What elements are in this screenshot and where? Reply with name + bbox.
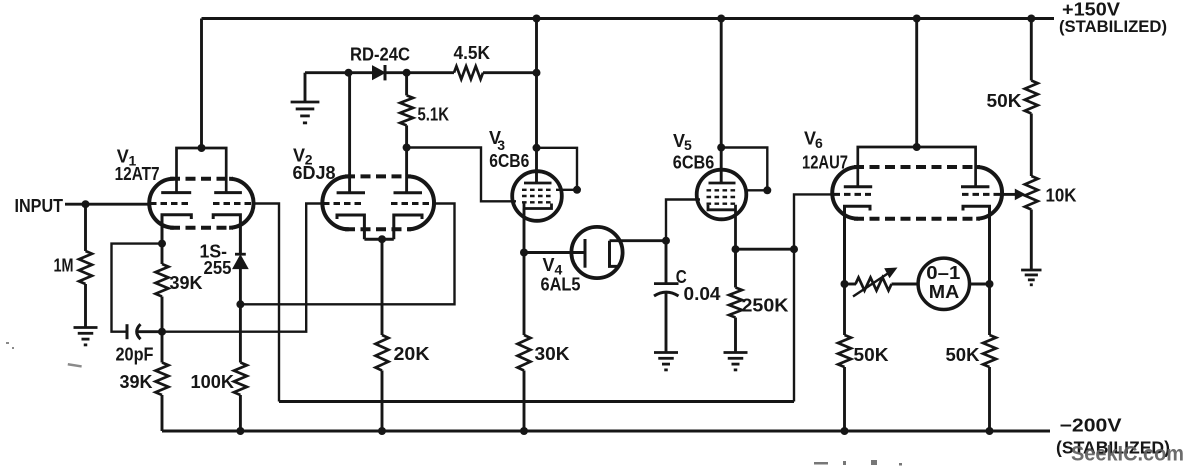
resistor R 250K (729, 288, 742, 318)
diode D 1S-255 (235, 253, 246, 256)
tube V2 left cathode (337, 215, 364, 239)
tube V5 grid rows (dashed) (707, 189, 738, 191)
wire 50K meter-left leads (843, 284, 846, 335)
svg-text:6: 6 (815, 135, 823, 151)
node V3 cathode junction (520, 249, 528, 257)
ground below C (654, 351, 678, 354)
svg-text:6DJ8: 6DJ8 (293, 163, 336, 183)
svg-text:4.5K: 4.5K (454, 43, 491, 63)
node rail / 20K (378, 427, 386, 435)
svg-text:250K: 250K (742, 295, 789, 315)
tube V6 right grid (dashed) (962, 193, 1001, 196)
svg-text:50K: 50K (946, 345, 980, 365)
svg-text:12AU7: 12AU7 (802, 152, 848, 172)
wire 39K lower leads (161, 332, 164, 363)
tube V1 left grid (dashed) (150, 202, 191, 205)
wire -200V bottom rail (162, 430, 1050, 433)
resistor R 100K (234, 363, 247, 396)
svg-text:100K: 100K (191, 372, 235, 392)
tube V6 envelope arcs (832, 167, 1002, 219)
tube V2 right cathode (394, 215, 422, 239)
tube V6 left cathode (845, 206, 871, 284)
wire V3 plate riser (535, 19, 538, 184)
node V6 plate join (913, 143, 921, 151)
wire V2 cathode join (364, 238, 393, 241)
wire V5 cathode to feedback riser (736, 248, 795, 251)
resistor R 39K lower (156, 363, 169, 396)
tube V3 plate bar (524, 182, 552, 185)
node V3 g2 tie dot (573, 186, 581, 194)
resistor R 4.5K (454, 66, 483, 79)
svg-text:39K: 39K (120, 372, 153, 392)
tube V6 envelope dashed top (854, 165, 980, 169)
wire 30K leads (523, 253, 526, 336)
tube V1 left cathode (162, 215, 191, 244)
wire diode bottom lead (239, 269, 242, 305)
capacitor C 20pF (126, 324, 129, 339)
node rail / 100K (236, 427, 244, 435)
node right cathode / meter junction (986, 280, 994, 288)
tube V1 left plate bar (161, 191, 191, 194)
tube V1 right cathode (213, 215, 240, 254)
wire 5.1K junction to V3 grid (407, 148, 516, 202)
wire V5 g2 tie (721, 148, 767, 191)
tube V5 envelope circle (697, 170, 747, 220)
wire zigzag to meter (892, 283, 919, 286)
wire 250K leads (734, 249, 737, 287)
node 39K / 20pF junction (158, 328, 166, 336)
svg-text:50K: 50K (987, 91, 1022, 111)
node diode / 100K / wire-A junction (236, 300, 244, 308)
wire bottom feedback run (279, 400, 794, 403)
wire feedback riser to V6 grid (794, 194, 833, 401)
svg-text:0.04: 0.04 (684, 284, 721, 304)
resistor R 5.1K (400, 95, 413, 125)
wire V2 left grid lead (162, 204, 323, 332)
svg-text:5: 5 (684, 137, 692, 153)
svg-text:20K: 20K (394, 344, 430, 364)
meter M 0-1 MA circle (918, 258, 969, 309)
node junction top rail / V5 plate line (717, 15, 725, 23)
diode D RD-24C (373, 66, 386, 79)
svg-text:50K: 50K (854, 345, 889, 365)
svg-text:RD-24C: RD-24C (350, 44, 410, 64)
wire 5.1K bottom lead (405, 125, 408, 147)
svg-text:12AT7: 12AT7 (115, 164, 160, 184)
svg-text:6CB6: 6CB6 (673, 153, 715, 173)
svg-text:6AL5: 6AL5 (541, 275, 581, 295)
tube V3 cathode (524, 204, 552, 209)
wire C bottom lead (665, 294, 668, 353)
node feedback riser junction (790, 245, 798, 253)
ground below 1M (74, 326, 98, 329)
tube V4 cathode (610, 241, 618, 267)
node rail / 50K right (986, 427, 994, 435)
tube V3 grid rows (dashed) (522, 189, 553, 191)
wire A to V2 grid (240, 204, 454, 305)
tube V3 envelope circle (512, 171, 562, 221)
wire cap to junction (137, 330, 162, 333)
tube V2 envelope arcs (322, 176, 434, 229)
svg-text:MA: MA (929, 282, 960, 302)
node V5 plate/g2 tie junction (717, 144, 725, 152)
wire 50K top lead (1030, 19, 1033, 81)
arrow pot wiper (1015, 189, 1026, 201)
tube V6 envelope dashed bottom (854, 217, 980, 221)
node junction top rail / V3 plate line (533, 15, 541, 23)
node V4 / C / V5 grid junction (662, 237, 670, 245)
node 4.5K / V3 riser junction (533, 69, 541, 77)
wire 4.5K to V3 riser (483, 71, 537, 74)
svg-text:SeekIC.com: SeekIC.com (1071, 443, 1184, 466)
wire junction to V5 grid (666, 200, 700, 241)
ground below 250K (724, 351, 748, 354)
tube V2 envelope dashed top (345, 174, 411, 178)
wire 50K meter-right leads (988, 284, 991, 335)
wire pot bottom lead (1030, 210, 1033, 271)
tube V6 left plate bar (844, 185, 872, 188)
tube V4 anode bar (584, 239, 587, 268)
resistor R 50K top (1025, 81, 1038, 114)
node V1 plate join (198, 144, 206, 152)
wire V3 g2 tie (537, 148, 578, 190)
resistor R 20K (376, 335, 389, 371)
wire cathode to cap loop (112, 244, 163, 332)
resistor R 39K upper (156, 264, 169, 297)
resistor R variable (meter shunt) (856, 278, 892, 291)
tube V2 left plate bar (337, 191, 365, 194)
tube V1 right grid (dashed) (213, 202, 253, 205)
wire meter to right cathode (970, 283, 990, 286)
tube V5 plate bar (709, 182, 736, 185)
wire V3 cathode lead (523, 209, 526, 253)
wire 20K bottom lead (381, 371, 384, 432)
resistor R 50K meter-right (983, 335, 996, 367)
tube V1 envelope dashed bottom (170, 226, 233, 230)
speckle bottom partial text (814, 460, 902, 466)
svg-text:255: 255 (204, 258, 232, 278)
svg-text:6CB6: 6CB6 (489, 151, 529, 171)
wire V6 grid to pot wiper (1002, 193, 1016, 196)
tube V2 left grid (dashed) (323, 202, 363, 205)
node left cathode / meter junction (841, 280, 849, 288)
tube V1 envelope dashed top (170, 177, 233, 181)
potentiometer R 10K (1025, 176, 1038, 209)
svg-text:10K: 10K (1046, 185, 1077, 205)
node rail / 30K (520, 427, 528, 435)
tube V5 cathode (708, 205, 736, 249)
node input / 1M junction (82, 200, 90, 208)
svg-text:V: V (543, 255, 555, 275)
tube V2 right grid (dashed) (391, 202, 433, 205)
arrow variable resistor (853, 272, 890, 297)
wire V2 cathode to 20K (381, 239, 384, 335)
node V5 g2 tie dot (763, 186, 771, 194)
node 5.1K bottom junction (403, 144, 411, 152)
node 5.1K top junction (403, 69, 411, 77)
wire V6 plate join and leads (858, 147, 976, 187)
wire V5 plate riser (720, 19, 723, 184)
wire input (65, 203, 151, 206)
wire 1M top lead (84, 204, 87, 251)
wire V1 plate join and leads (177, 148, 227, 193)
node V3 plate/g2 tie junction (533, 144, 541, 152)
svg-text:−200V: −200V (1060, 416, 1122, 436)
tube V1 envelope arcs (149, 179, 253, 228)
tube V4 envelope circle (571, 227, 622, 278)
svg-text:INPUT: INPUT (15, 196, 64, 216)
node RD-24C / V2 plate junction (345, 69, 353, 77)
node junction top rail / 50K line (1027, 15, 1035, 23)
node V2 cathode junction (378, 235, 386, 243)
svg-text:39K: 39K (170, 273, 203, 293)
wire 5.1K top lead (405, 73, 408, 96)
wire 100K leads (239, 304, 242, 362)
svg-text:(STABILIZED): (STABILIZED) (1059, 17, 1167, 36)
speckle left margin (6, 342, 82, 368)
resistor R 1M (79, 251, 92, 284)
node V1 left cathode junction (158, 240, 166, 248)
svg-text:1M: 1M (54, 255, 74, 275)
tube V6 right plate bar (961, 185, 989, 188)
node rail / 50K left (841, 427, 849, 435)
wire 1M bottom lead (84, 284, 87, 328)
wire diode to 4.5K (385, 71, 454, 74)
ground top left (291, 101, 320, 104)
wire V4 cathode lead (610, 239, 667, 242)
svg-text:30K: 30K (535, 344, 570, 364)
wire ground to diode (305, 71, 373, 74)
wire +150V top rail (202, 17, 1055, 20)
capacitor C 0.04 (665, 241, 668, 284)
tube V6 right cathode (963, 206, 990, 284)
wire dot to variable resistor (845, 283, 857, 286)
node V5 cathode junction (732, 245, 740, 253)
tube V2 right plate bar (394, 191, 423, 194)
ground below 10K pot (1021, 269, 1041, 272)
wire V6 plate riser (915, 19, 918, 148)
resistor R 50K meter-left (838, 335, 851, 367)
wire V2 right plate riser (405, 148, 408, 193)
ground top left stem (304, 73, 307, 101)
tube V1 right plate bar (214, 191, 242, 194)
svg-text:20pF: 20pF (116, 344, 154, 364)
tube V2 envelope dashed bottom (345, 227, 411, 231)
wire V1 plate riser (200, 19, 203, 149)
wire 50K to pot (1030, 114, 1033, 177)
svg-text:0–1: 0–1 (926, 263, 960, 283)
tube V6 left grid (dashed) (834, 193, 872, 196)
wire 39K upper leads (161, 244, 164, 264)
node junction top rail / V6 plate line (913, 15, 921, 23)
wire V2 left plate riser (348, 73, 351, 193)
wire V1 right grid to feedback (253, 204, 279, 402)
resistor R 30K (518, 335, 531, 371)
wire V3 cathode to V4 anode (524, 251, 585, 254)
svg-text:5.1K: 5.1K (418, 104, 450, 124)
